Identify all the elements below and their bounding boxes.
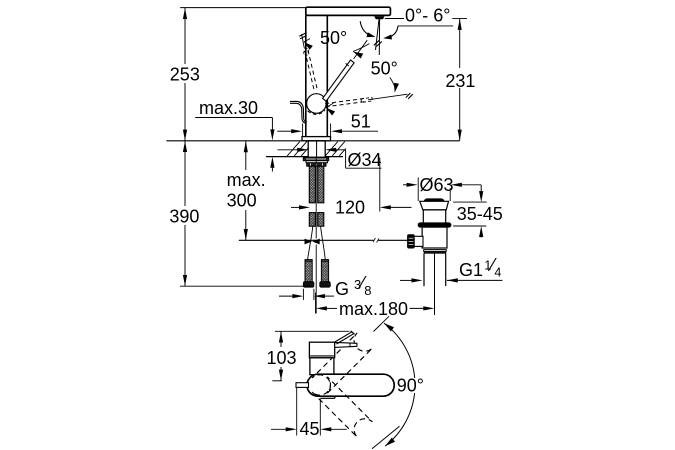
- dimension 253 text: [168, 64, 202, 83]
- swivel 90 arc: [384, 323, 415, 446]
- swivel axis extension bottom: [372, 426, 400, 449]
- dimension 103 lower tick: [272, 380, 282, 382]
- svg-text:Ø63: Ø63: [420, 175, 454, 195]
- wire extension line top (253 ref): [180, 7, 306, 9]
- countertop hatching: [287, 142, 300, 156]
- svg-text:390: 390: [169, 206, 199, 226]
- flex hose left lower: [309, 213, 315, 227]
- angle arrow on solid axis: [353, 52, 363, 59]
- dimension max300 arrows: [244, 141, 248, 152]
- svg-text:51: 51: [351, 112, 371, 132]
- dia63 ext lines: [417, 178, 419, 202]
- swivel arc arrows: [384, 323, 394, 331]
- waste lower flange: [424, 250, 447, 252]
- plan body bottom sliver: [320, 397, 335, 399]
- lever handle profile hook: [290, 101, 307, 122]
- ball socket dashed arc: [308, 110, 325, 114]
- svg-text:max.30: max.30: [199, 98, 258, 118]
- label 0-6 deg: [385, 18, 404, 20]
- dimension 231 line: [459, 19, 461, 141]
- tilt arc right: [387, 26, 398, 38]
- aerator outlet: [374, 16, 384, 19]
- raised rod axis extension: [302, 34, 305, 49]
- dimension 253 line: [184, 8, 186, 141]
- hose tail right: [321, 226, 326, 259]
- mounting washer: [303, 157, 328, 160]
- hose tail left: [308, 226, 313, 259]
- dimension 120 arrows: [291, 206, 302, 208]
- spout bar: [306, 7, 391, 15]
- dimension 231 arrows: [458, 19, 462, 30]
- parallel ticks lowered axis: [406, 93, 411, 98]
- dimension 51 text: [349, 114, 371, 129]
- svg-text:300: 300: [227, 191, 257, 211]
- svg-text:120: 120: [335, 198, 365, 218]
- parallel ticks on solid axis: [374, 40, 379, 45]
- waste plug cap: [424, 198, 445, 201]
- dim3545 arrows: [479, 191, 483, 202]
- parallel ticks raised axis: [299, 33, 306, 36]
- max30 arrows: [270, 129, 274, 140]
- mounting ring: [306, 161, 328, 163]
- hose end stud right: [321, 260, 328, 282]
- svg-text:max.: max.: [227, 170, 266, 190]
- dimension 45 arrows: [271, 428, 288, 430]
- plan body: [310, 358, 334, 375]
- svg-text:90°: 90°: [397, 376, 424, 396]
- stream extension below counter: [379, 158, 381, 212]
- tilt reference line: [398, 25, 453, 27]
- rod joint bowtie: [305, 239, 313, 245]
- plan top reference line: [275, 330, 350, 332]
- svg-text:Ø34: Ø34: [348, 150, 382, 170]
- mounting nut: [307, 163, 326, 166]
- dia34 leader box: [345, 150, 347, 168]
- dimension 253 arrows: [183, 8, 187, 19]
- lever rod axis extension: [354, 40, 368, 59]
- lever rod solid (50 deg position): [323, 60, 355, 101]
- water stream tilted 6deg: [376, 19, 380, 50]
- dimension 51 ext ticks: [302, 124, 304, 138]
- plan lever base: [309, 342, 334, 358]
- horizontal actuating rod: [239, 239, 374, 241]
- waste knob cylinder: [414, 236, 423, 246]
- pop-up pull rod: [315, 157, 317, 238]
- flex hose right lower: [318, 213, 324, 227]
- G38 arrows: [279, 295, 295, 297]
- waste flange: [420, 201, 449, 210]
- lever rod dashed (lowered position): [325, 98, 365, 103]
- dimension 390 text: [168, 206, 202, 225]
- waste tailpipe: [423, 254, 425, 287]
- faucet body left edge: [305, 15, 307, 136]
- svg-text:50°: 50°: [371, 59, 398, 79]
- base plate: [302, 137, 331, 141]
- waste knob: [408, 235, 415, 248]
- dimension max300 line: [245, 141, 247, 170]
- leader to lowered axis: [390, 78, 395, 89]
- dimension 103 arrows: [279, 332, 283, 343]
- lowered rod axis extension: [368, 94, 408, 100]
- svg-text:103: 103: [267, 348, 297, 368]
- spout swivel dashed capsule up: [312, 333, 372, 393]
- waste o-ring: [418, 223, 451, 227]
- countertop underside line: [266, 156, 343, 158]
- max30 leader: [195, 117, 272, 119]
- dim3545 text: [456, 206, 503, 222]
- plan spout tail: [296, 383, 309, 388]
- dimension max180 ext: [315, 293, 317, 314]
- lever rod dashed (raised 50 deg): [305, 51, 314, 91]
- svg-text:253: 253: [170, 65, 200, 85]
- svg-text:50°: 50°: [320, 28, 347, 48]
- lever ball joint: [307, 94, 327, 114]
- tilt arc left: [360, 21, 372, 36]
- G38 ext ticks: [302, 289, 304, 300]
- dimension 390 arrows: [183, 141, 187, 152]
- svg-text:231: 231: [445, 71, 475, 91]
- G114 arrows: [400, 279, 413, 281]
- flex hose right upper: [318, 166, 324, 203]
- dimension 231 text: [444, 68, 474, 88]
- waste mid body: [422, 227, 447, 248]
- swivel axis extension top: [374, 316, 390, 331]
- waste centerline: [434, 254, 436, 316]
- plan lever rod: [335, 342, 357, 347]
- label 90deg: [396, 378, 426, 393]
- angle arrow near ball: [326, 108, 335, 116]
- plan lever raised diagonal: [335, 332, 352, 342]
- dimension 390 line: [184, 141, 186, 286]
- hose end stud left: [305, 260, 312, 282]
- dia34 arrows: [278, 149, 300, 151]
- spout swivel dashed capsule down: [312, 377, 372, 437]
- svg-text:max.180: max.180: [339, 299, 408, 319]
- angle arrow on raised axis: [304, 42, 313, 50]
- svg-text:35-45: 35-45: [457, 204, 503, 224]
- dimension 45 ext lines: [296, 388, 298, 436]
- dim3545 line: [480, 185, 482, 194]
- waste upper body: [423, 210, 445, 223]
- dimension 103 line: [280, 332, 282, 348]
- flex hose left upper: [309, 166, 315, 203]
- countertop surface line: [166, 140, 459, 142]
- threaded shank: [308, 141, 325, 157]
- plan spout capsule: [307, 374, 394, 396]
- water stream vertical: [378, 19, 380, 55]
- dimension max180: [316, 306, 327, 310]
- dimension 51 arrows: [277, 130, 292, 132]
- faucet body right edge: [326, 15, 328, 136]
- dia63 arrows: [403, 184, 409, 186]
- svg-text:0°- 6°: 0°- 6°: [405, 6, 450, 26]
- dim3545 ref ticks: [453, 201, 487, 203]
- lower reference line: [180, 285, 310, 287]
- dia63 text: [419, 174, 451, 188]
- svg-text:45: 45: [300, 419, 320, 439]
